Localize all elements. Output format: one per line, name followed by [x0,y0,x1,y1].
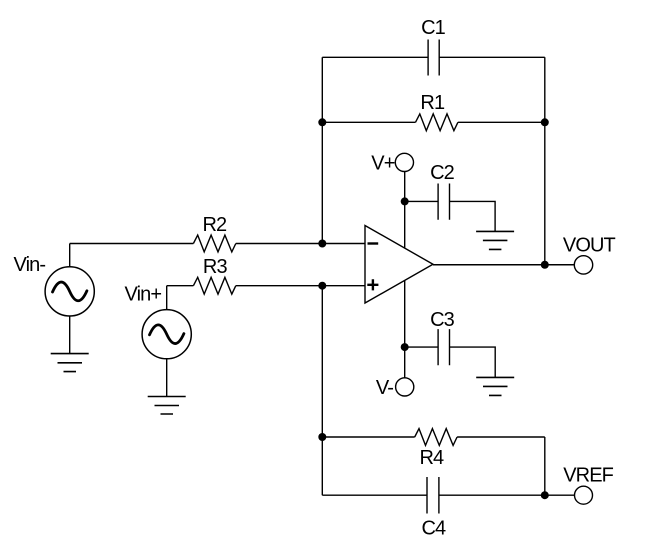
wire: C4 right lead [439,494,545,496]
wire: V+ stem to op-amp [404,172,406,249]
ground Vin+ [148,397,186,415]
wire: C4 left lead [322,494,427,496]
junction dot: minus node [318,240,326,248]
source Vin- sine [53,282,87,301]
op-amp minus input symbol [368,242,379,244]
wire: V- stem to op-amp [404,280,406,377]
svg-text:C3: C3 [430,309,455,331]
ground C3 [476,377,514,395]
ground C2 [476,231,514,249]
svg-text:V-: V- [376,377,393,399]
source Vin+ circle [142,310,191,359]
svg-text:R3: R3 [203,256,228,278]
wire: R2 right lead to minus node [236,243,322,245]
wire: R1 right lead [458,121,545,123]
wire: C1 top right segment [439,56,545,58]
junction dot: plus node [318,282,326,290]
capacitor C2 [438,184,449,220]
ground Vin- [51,354,89,372]
source Vin+ sine [150,325,184,344]
source Vin- circle [45,267,94,316]
wire: C2 right lead and drop [450,201,496,231]
wire: Vin+ bottom stem [166,359,168,397]
wire: R3 left lead [167,285,194,287]
svg-text:Vin+: Vin+ [125,283,162,305]
svg-text:C4: C4 [422,517,447,539]
terminal VREF circle [575,486,593,504]
wire: R4 right drop [544,437,546,495]
svg-text:Vin-: Vin- [14,254,46,276]
junction dot: R1 right [541,118,549,126]
resistor R3 [193,277,235,294]
wire: Vin- bottom stem [69,316,71,354]
junction dot: VOUT node [541,261,549,269]
wire: plus node to op-amp [322,285,365,287]
op-amp U1 triangle [365,226,433,304]
wire: op-amp output to VOUT node [433,264,545,266]
wire: minus node to op-amp [322,243,365,245]
resistor R1 [416,114,458,131]
wire: VREF node to terminal [545,494,575,496]
wire: C3 right lead and drop [450,347,496,377]
wire: C3 left lead [405,346,438,348]
junction dot: R1 left [318,118,326,126]
terminal VOUT circle [574,256,592,274]
capacitor C1 [428,40,439,76]
svg-text:C2: C2 [430,162,455,184]
terminal V+ circle [395,153,413,171]
svg-text:R4: R4 [420,447,445,469]
wire: R2 left lead [70,243,194,245]
wire: left feedback column [321,57,323,243]
wire: right feedback column [544,57,546,264]
wire: R3 right lead to plus node [236,285,322,287]
wire: C2 left lead [405,200,438,202]
wire: Vin- top stem [69,244,71,267]
resistor R2 [193,235,235,252]
junction dot: V- node [401,343,409,351]
svg-text:R1: R1 [420,92,445,114]
capacitor C4 [427,477,439,514]
svg-text:C1: C1 [421,17,446,39]
junction dot: R4 left [318,433,326,441]
junction dot: V+ node [401,197,409,205]
terminal V- circle [396,378,414,396]
svg-text:V+: V+ [371,153,394,175]
capacitor C3 [438,329,449,365]
wire: plus column down to bottom network [321,286,323,496]
svg-text:R2: R2 [203,214,228,236]
svg-text:VREF: VREF [563,465,613,487]
wire: R1 left lead [322,121,415,123]
junction dot: VREF node [541,491,549,499]
svg-text:VOUT: VOUT [563,235,616,257]
resistor R4 [415,429,457,446]
wire: VOUT node to terminal [545,264,575,266]
wire: R4 right lead [457,436,545,438]
op-amp plus input symbol [367,279,378,290]
wire: C1 top left segment [322,56,428,58]
wire: R4 left lead [322,436,414,438]
wire: Vin+ top stem [166,286,168,310]
